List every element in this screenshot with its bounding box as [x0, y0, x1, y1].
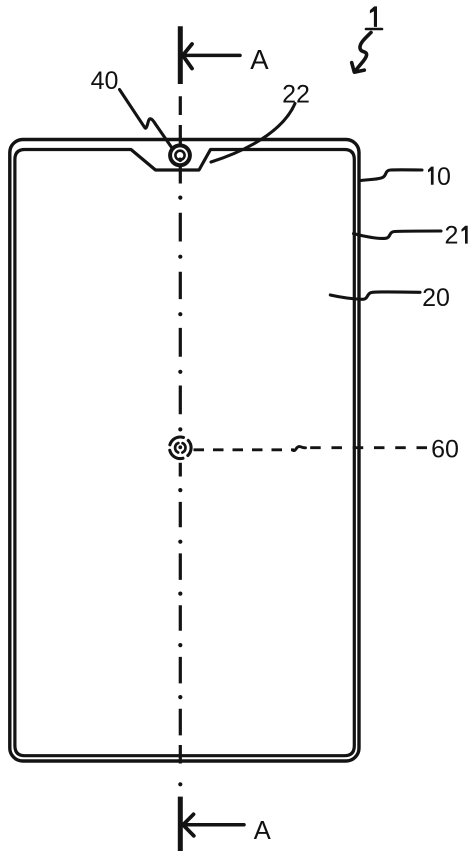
centerline upper dots: [178, 196, 182, 432]
svg-text:A: A: [254, 817, 271, 845]
housing outer outline 10: [10, 140, 359, 762]
touch sensor 60 inner dashed circle: [175, 443, 185, 453]
centerline upper dashes (vertical dash-dot): [179, 96, 182, 414]
dashed leader 60 (right part): [310, 446, 427, 449]
svg-text:0: 0: [437, 163, 451, 191]
section cut line top (thick): [178, 26, 183, 84]
leader line 40: [120, 90, 173, 149]
leader line 21: [354, 231, 442, 238]
label 10 (1 drawn, 0 text): [428, 167, 434, 185]
leader line 10: [359, 170, 422, 181]
display outline 20/21 with notch 22: [15, 150, 354, 756]
leader arrow for 1 (squiggle): [352, 33, 371, 73]
underline of label 1: [366, 28, 382, 31]
centerline dot at sensor center: [178, 445, 182, 449]
leader line 22 (curved): [211, 104, 295, 163]
svg-text:A: A: [250, 44, 269, 75]
svg-text:40: 40: [91, 67, 119, 95]
camera 40 outer ring: [170, 145, 190, 165]
centerline lower dots: [178, 488, 182, 786]
svg-text:20: 20: [422, 284, 450, 312]
dashed leader 60 (left part): [194, 448, 295, 451]
touch sensor 60 outer dashed circle: [170, 437, 192, 459]
section arrow A bottom: [183, 814, 244, 836]
camera 40 center dot: [178, 158, 183, 163]
label 1 (drawn digit, no foot serif): [370, 6, 377, 27]
section arrow A top: [183, 44, 240, 69]
dashed leader 60 jog: [294, 447, 306, 451]
svg-text:2: 2: [445, 222, 459, 250]
camera 40 inner ring: [175, 151, 184, 160]
svg-text:60: 60: [431, 436, 459, 464]
centerline lower dashes (vertical dash-dot): [179, 463, 182, 764]
section cut line bottom (thick): [178, 797, 183, 851]
leader line 20: [330, 292, 420, 299]
